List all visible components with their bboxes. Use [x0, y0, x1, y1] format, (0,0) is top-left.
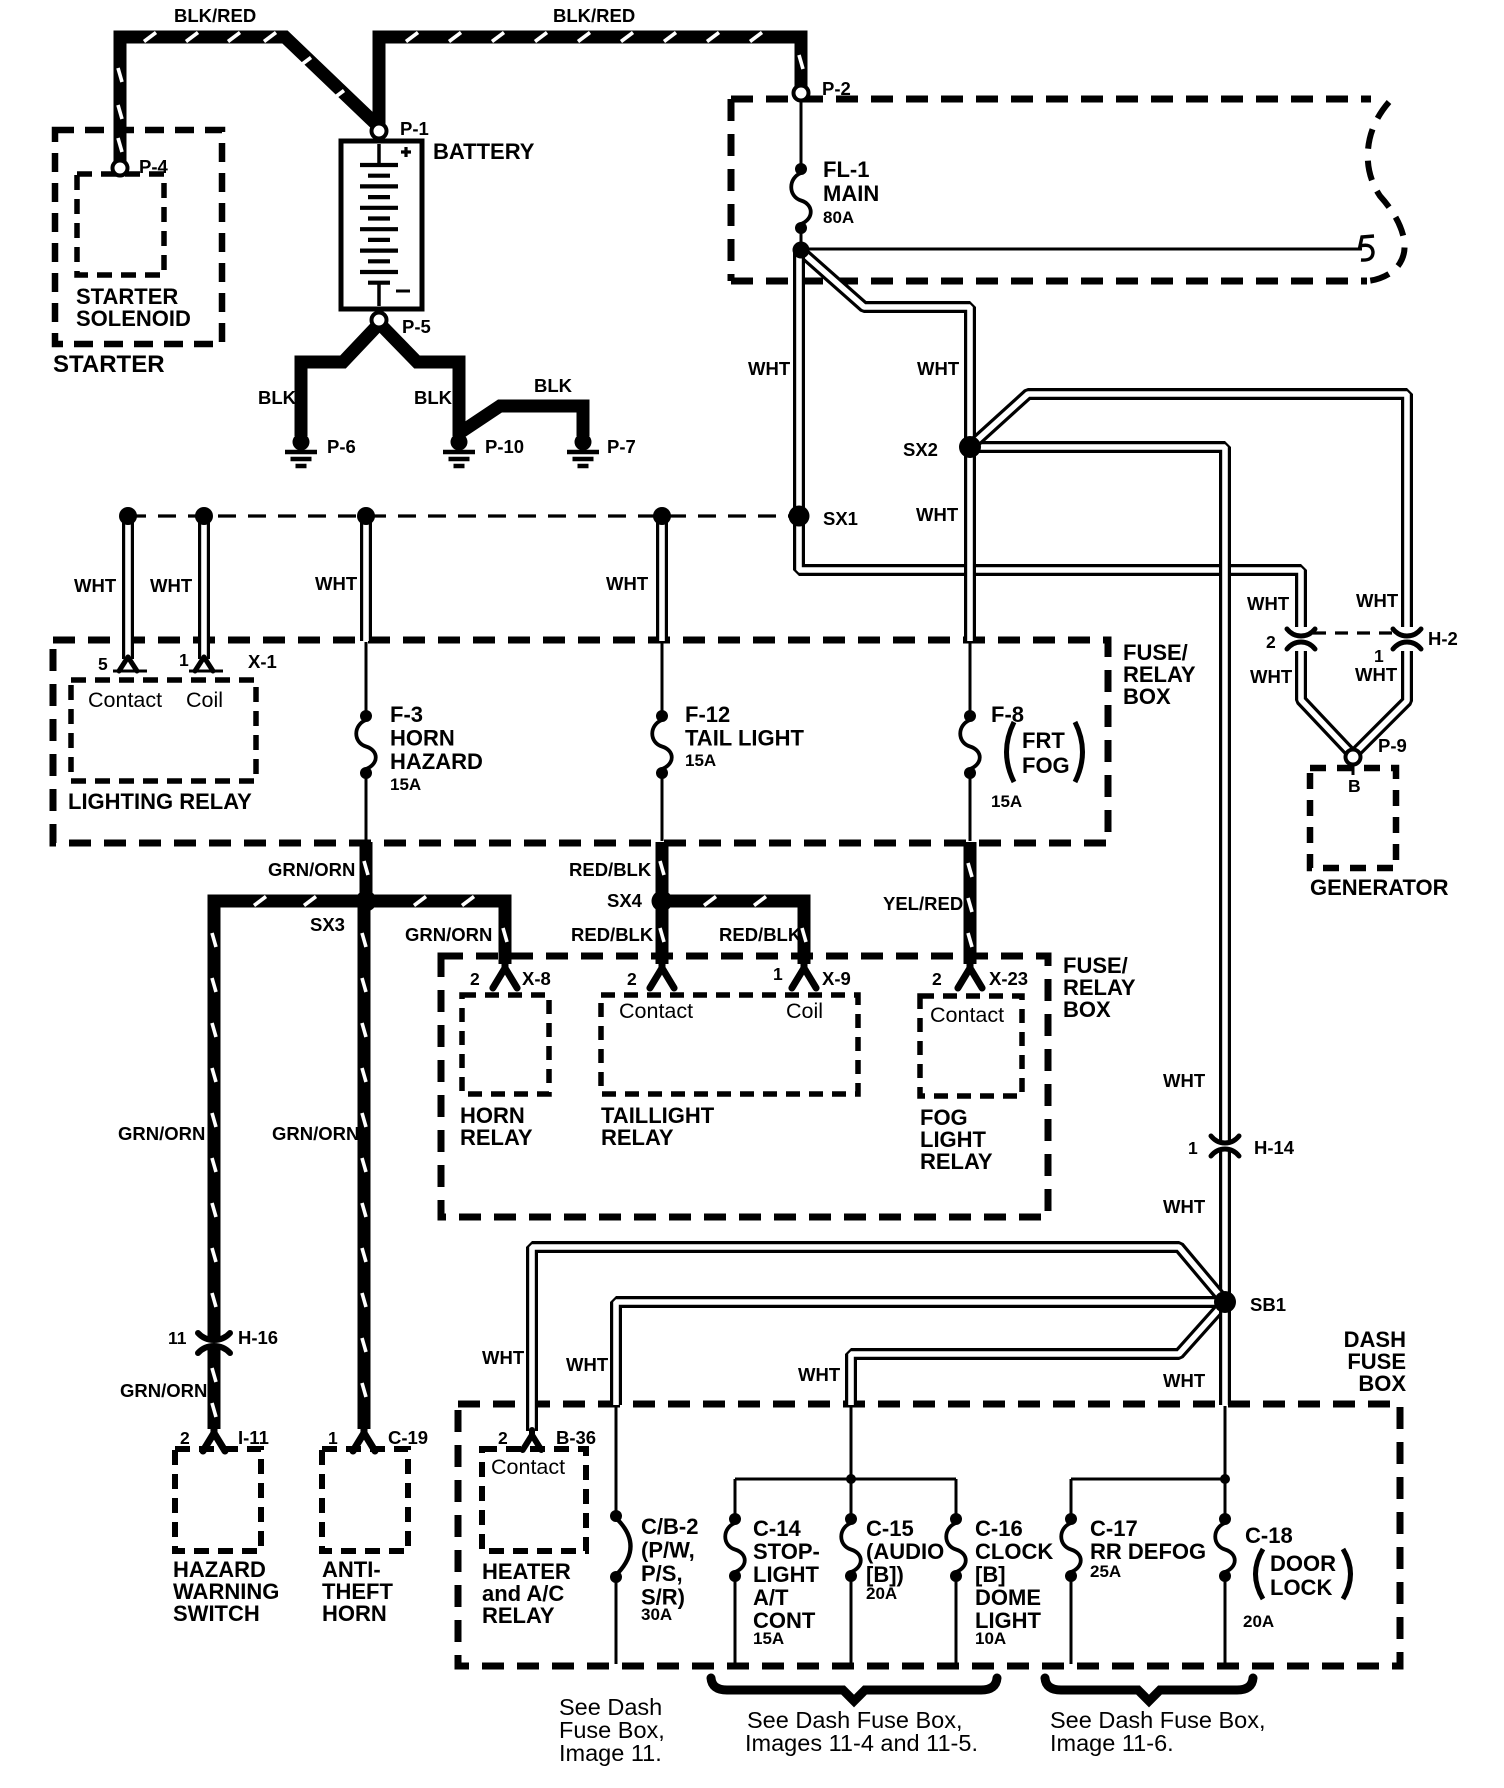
fuse/relay box 1 outline: [53, 640, 1108, 843]
battery BATTERY: [341, 141, 422, 309]
wire GRN/ORN F-3 to SX3: [360, 842, 373, 900]
connector pin X-23: [958, 963, 982, 988]
wire WHT junction diagonal to SX2: [803, 253, 970, 445]
svg-text:P-4: P-4: [139, 156, 169, 177]
svg-text:Contact: Contact: [930, 1003, 1004, 1027]
svg-text:25A: 25A: [1090, 1562, 1121, 1581]
wire YEL/RED F-8 to X-23: [964, 842, 977, 964]
svg-text:Images 11-4 and 11-5.: Images 11-4 and 11-5.: [745, 1730, 978, 1756]
svg-text:11: 11: [168, 1328, 187, 1348]
svg-text:WHT: WHT: [1247, 593, 1290, 614]
svg-text:STARTER: STARTER: [53, 351, 165, 378]
svg-text:1: 1: [179, 650, 189, 670]
node SX2: [959, 436, 981, 458]
svg-text:P/S,: P/S,: [641, 1561, 683, 1586]
svg-text:C/B-2: C/B-2: [641, 1514, 698, 1539]
svg-text:RR DEFOG: RR DEFOG: [1090, 1539, 1206, 1564]
svg-text:15A: 15A: [685, 751, 716, 770]
svg-text:I-11: I-11: [238, 1427, 269, 1448]
svg-text:BOX: BOX: [1358, 1371, 1406, 1396]
svg-text:5: 5: [98, 654, 108, 674]
svg-text:15A: 15A: [753, 1629, 784, 1648]
node SX3: [356, 891, 377, 912]
horn relay inner box: [462, 995, 549, 1094]
svg-text:B: B: [1348, 776, 1361, 796]
node SB1: [1214, 1291, 1236, 1313]
svg-text:BATTERY: BATTERY: [433, 139, 535, 164]
svg-text:X-8: X-8: [522, 968, 551, 989]
svg-text:FRT: FRT: [1022, 728, 1065, 753]
svg-text:WHT: WHT: [482, 1347, 525, 1368]
svg-text:C-14: C-14: [753, 1516, 801, 1541]
svg-text:Coil: Coil: [186, 688, 223, 712]
svg-text:P-10: P-10: [485, 436, 524, 457]
svg-text:1: 1: [773, 964, 783, 984]
wire dashed bus SX1 to lighting relay drops: [128, 514, 795, 517]
fuse/relay box 2 outline: [441, 956, 1048, 1217]
svg-text:GRN/ORN: GRN/ORN: [118, 1123, 205, 1144]
junction node below FL-1: [793, 242, 810, 259]
svg-text:1: 1: [328, 1428, 338, 1448]
svg-text:STOP-: STOP-: [753, 1539, 820, 1564]
wire RED/BLK SX4 right branch to X-9 pin 1: [662, 901, 804, 964]
connector pin B-36: [523, 1430, 542, 1450]
svg-text:WHT: WHT: [1163, 1370, 1206, 1391]
wire BLK battery negative to ground P-6: [301, 325, 378, 436]
svg-text:1: 1: [1188, 1138, 1198, 1158]
svg-text:GRN/ORN: GRN/ORN: [268, 859, 355, 880]
wire WHT drop to F-12: [656, 517, 668, 641]
svg-text:P-9: P-9: [1378, 735, 1407, 756]
wire RED/BLK F-12 to SX4: [656, 842, 669, 900]
svg-text:WHT: WHT: [1163, 1070, 1206, 1091]
svg-text:B-36: B-36: [556, 1427, 596, 1448]
hazard warning switch box: [175, 1449, 261, 1551]
svg-text:BOX: BOX: [1123, 684, 1171, 709]
svg-text:GENERATOR: GENERATOR: [1310, 875, 1449, 900]
wire fuse bottoms C-17 C-18 to box bottom: [1071, 1575, 1225, 1664]
svg-text:BLK: BLK: [258, 387, 297, 408]
svg-text:RELAY: RELAY: [482, 1603, 555, 1628]
starter component box: [55, 130, 222, 344]
svg-text:80A: 80A: [823, 208, 854, 227]
fusible link FL-1 80A: [795, 163, 807, 175]
svg-text:LIGHTING RELAY: LIGHTING RELAY: [68, 789, 252, 814]
wire WHT connector 2 to P-9: [1301, 651, 1350, 752]
svg-text:X-1: X-1: [248, 651, 277, 672]
svg-text:C-19: C-19: [388, 1427, 428, 1448]
svg-text:BLK: BLK: [414, 387, 453, 408]
svg-text:(P/W,: (P/W,: [641, 1538, 695, 1563]
svg-text:WHT: WHT: [150, 575, 193, 596]
connector pin 5 of X-1: [119, 657, 137, 671]
wire BLK/RED battery to P-2: [379, 37, 801, 126]
svg-text:20A: 20A: [1243, 1612, 1274, 1631]
wire GRN/ORN SX3 down to C-19: [358, 901, 371, 1429]
wire WHT SB1 down to C-17 C-18 group: [1219, 1302, 1231, 1405]
svg-text:F-3: F-3: [390, 702, 423, 727]
svg-text:C-15: C-15: [866, 1516, 914, 1541]
connector H-14 inline: [1217, 1141, 1233, 1151]
wire WHT drop to pin 5: [122, 517, 134, 659]
svg-text:LOCK: LOCK: [1270, 1575, 1332, 1600]
svg-text:SOLENOID: SOLENOID: [76, 306, 191, 331]
svg-text:2: 2: [932, 969, 942, 989]
svg-text:Contact: Contact: [619, 999, 693, 1023]
svg-text:P-7: P-7: [607, 436, 636, 457]
svg-text:MAIN: MAIN: [823, 181, 879, 206]
wire WHT SB1 to B-36: [532, 1247, 1221, 1431]
svg-text:SB1: SB1: [1250, 1294, 1286, 1315]
big parentheses for C-18 DOOR LOCK: [1256, 1549, 1264, 1599]
svg-text:WHT: WHT: [74, 575, 117, 596]
wire WHT junction to SX1: [793, 252, 805, 514]
wire SB1 branch to C-17 C-18 bus bar: [1071, 1406, 1225, 1519]
svg-text:HORN: HORN: [390, 726, 455, 751]
svg-text:YEL/RED: YEL/RED: [883, 893, 963, 914]
wire WHT drop to F-3: [360, 517, 372, 641]
svg-text:2: 2: [1266, 632, 1276, 652]
svg-text:Coil: Coil: [786, 999, 823, 1023]
svg-text:10A: 10A: [975, 1629, 1006, 1648]
svg-text:FOG: FOG: [1022, 753, 1070, 778]
bus junction dots on dashed bus: [119, 507, 137, 525]
fuse F-8 15A: [964, 710, 976, 722]
connector pin 1 of X-1: [195, 657, 213, 671]
svg-text:P-2: P-2: [822, 78, 851, 99]
connector pin 1 of X-9: [792, 963, 816, 988]
svg-text:GRN/ORN: GRN/ORN: [272, 1123, 359, 1144]
wire WHT SX2 down to fuse/relay box F-8: [964, 449, 976, 641]
svg-text:WHT: WHT: [917, 358, 960, 379]
wire junction to continuation 5: [805, 248, 1362, 251]
node P-1: [372, 124, 387, 139]
connector pin 2 of X-9: [650, 963, 674, 988]
svg-text:GRN/ORN: GRN/ORN: [405, 924, 492, 945]
svg-text:DOOR: DOOR: [1270, 1551, 1336, 1576]
svg-text:RED/BLK: RED/BLK: [571, 924, 654, 945]
generator pin B stub: [1352, 764, 1355, 775]
big parentheses for F-8 FRT FOG: [1007, 722, 1015, 782]
fuse F-12 15A: [656, 710, 668, 722]
ground P-6: [293, 434, 310, 451]
heater and a/c relay contact box: [482, 1449, 586, 1551]
wire fuse bottoms C-14 C-15 C-16 to box bottom: [735, 1575, 956, 1664]
svg-text:WHT: WHT: [315, 573, 358, 594]
svg-text:H-16: H-16: [238, 1327, 278, 1348]
svg-text:Image 11.: Image 11.: [559, 1740, 662, 1766]
wire SB1 branch to C-14 C-15 C-16 bus bar: [735, 1406, 956, 1519]
node P-4: [113, 161, 128, 176]
continuation mark 5: [1360, 236, 1374, 260]
wire WHT SX2 right then down to SB1: [972, 447, 1225, 1300]
brace under C-17 C-18: [1045, 1678, 1253, 1701]
svg-text:P-1: P-1: [400, 118, 429, 139]
svg-text:BLK: BLK: [534, 375, 573, 396]
lighting relay inner box: [71, 680, 256, 781]
svg-text:FL-1: FL-1: [823, 157, 869, 182]
svg-text:Image 11-6.: Image 11-6.: [1050, 1730, 1174, 1756]
wire F-8 leads inside box: [969, 642, 972, 841]
svg-text:1: 1: [1374, 646, 1384, 666]
svg-text:BOX: BOX: [1063, 997, 1111, 1022]
svg-text:RELAY: RELAY: [920, 1149, 993, 1174]
svg-text:HORN: HORN: [322, 1601, 387, 1626]
connector H-2 inline: [1399, 634, 1415, 644]
brace under C-14 C-15 C-16: [711, 1678, 997, 1701]
wire F-12 leads inside box: [661, 642, 664, 841]
svg-text:WHT: WHT: [1163, 1196, 1206, 1217]
connector pin X-8: [493, 963, 517, 988]
svg-text:WHT: WHT: [1250, 666, 1293, 687]
fuse F-3 15A: [360, 710, 372, 722]
svg-text:WHT: WHT: [1355, 664, 1398, 685]
svg-text:20A: 20A: [866, 1584, 897, 1603]
wire P-2 to FL-1: [800, 100, 803, 168]
svg-text:BLK/RED: BLK/RED: [174, 5, 256, 26]
fuse C-15 20A: [845, 1513, 857, 1525]
connector H-16 inline: [206, 1338, 222, 1348]
svg-text:H-2: H-2: [1428, 628, 1458, 649]
svg-text:CLOCK: CLOCK: [975, 1539, 1053, 1564]
svg-text:2: 2: [470, 969, 480, 989]
svg-text:15A: 15A: [390, 775, 421, 794]
ground P-7: [575, 434, 592, 451]
svg-text:BLK/RED: BLK/RED: [553, 5, 635, 26]
svg-text:SX3: SX3: [310, 914, 345, 935]
circuit breaker C/B-2 30A: [610, 1510, 622, 1522]
connector pin I-11: [203, 1428, 225, 1451]
anti-theft horn box: [322, 1449, 408, 1551]
svg-text:SX2: SX2: [903, 439, 938, 460]
dash fuse box outline: [458, 1404, 1400, 1666]
svg-text:2: 2: [498, 1428, 508, 1448]
fuse C-16 10A: [950, 1513, 962, 1525]
wire GRN/ORN SX3 right branch to X-8: [366, 901, 505, 964]
wire WHT SX2 diagonal up to H-2: [974, 394, 1407, 627]
svg-text:F-8: F-8: [991, 702, 1024, 727]
svg-text:RELAY: RELAY: [601, 1125, 674, 1150]
svg-text:[B]: [B]: [975, 1562, 1006, 1587]
svg-text:DOME: DOME: [975, 1585, 1041, 1610]
wire BLK battery negative to ground P-10: [381, 325, 459, 436]
svg-text:WHT: WHT: [606, 573, 649, 594]
svg-text:WHT: WHT: [798, 1364, 841, 1385]
svg-text:SWITCH: SWITCH: [173, 1601, 260, 1626]
wire WHT H-2 to P-9: [1356, 651, 1407, 752]
taillight relay inner box: [601, 995, 858, 1094]
svg-text:WHT: WHT: [748, 358, 791, 379]
svg-text:X-9: X-9: [822, 968, 851, 989]
svg-text:GRN/ORN: GRN/ORN: [120, 1380, 207, 1401]
svg-text:C-18: C-18: [1245, 1523, 1293, 1548]
svg-text:(AUDIO: (AUDIO: [866, 1539, 944, 1564]
svg-text:RED/BLK: RED/BLK: [569, 859, 652, 880]
node SX4: [652, 891, 673, 912]
svg-text:TAIL LIGHT: TAIL LIGHT: [685, 726, 805, 751]
junction node C-14 bar: [846, 1474, 856, 1484]
svg-text:WHT: WHT: [566, 1354, 609, 1375]
svg-text:C-17: C-17: [1090, 1516, 1138, 1541]
svg-text:P-5: P-5: [402, 316, 431, 337]
wire WHT drop to pin 1: [198, 517, 210, 659]
svg-text:SX1: SX1: [823, 508, 858, 529]
svg-text:F-12: F-12: [685, 702, 730, 727]
connector pin C-19: [353, 1428, 375, 1451]
svg-text:HAZARD: HAZARD: [390, 749, 483, 774]
node P-5: [372, 313, 387, 328]
wire F-3 leads inside box: [365, 642, 368, 841]
fuse C-18 20A: [1219, 1513, 1231, 1525]
svg-text:H-14: H-14: [1254, 1137, 1295, 1158]
svg-text:RED/BLK: RED/BLK: [719, 924, 802, 945]
node SX1: [789, 506, 810, 527]
wire BLK/RED battery to starter: [120, 37, 378, 163]
svg-text:RELAY: RELAY: [460, 1125, 533, 1150]
svg-text:WHT: WHT: [916, 504, 959, 525]
fuse C-14 15A: [729, 1513, 741, 1525]
wire WHT SB1 to C/B-2: [616, 1302, 1222, 1405]
wire WHT SX1 down right to connector 2: [799, 516, 1301, 627]
svg-text:X-23: X-23: [989, 968, 1028, 989]
wire WHT SB1 to C-14 group: [851, 1307, 1221, 1405]
fuse C-17 25A: [1065, 1513, 1077, 1525]
svg-text:Contact: Contact: [491, 1455, 565, 1479]
ground P-10: [451, 434, 468, 451]
svg-text:30A: 30A: [641, 1605, 672, 1624]
dashed link between connector 2 and H-2: [1313, 631, 1395, 634]
svg-text:SX4: SX4: [607, 890, 643, 911]
svg-text:P-6: P-6: [327, 436, 356, 457]
generator component box: [1310, 768, 1396, 868]
fog light relay inner box: [920, 996, 1022, 1096]
node P-9: [1346, 750, 1361, 765]
svg-text:2: 2: [627, 969, 637, 989]
svg-text:2: 2: [180, 1428, 190, 1448]
wire BLK to ground P-7: [461, 406, 583, 436]
svg-text:A/T: A/T: [753, 1585, 789, 1610]
junction node C-17 bar: [1220, 1474, 1230, 1484]
svg-text:LIGHT: LIGHT: [753, 1562, 820, 1587]
wire FL-1 to junction: [800, 225, 803, 252]
wire C/B-2 leads inside dash fuse box: [615, 1406, 618, 1664]
node P-2: [794, 86, 809, 101]
svg-text:WHT: WHT: [1356, 590, 1399, 611]
svg-text:Contact: Contact: [88, 688, 162, 712]
fusible link box (FL-1 box) outline with torn right edge: [731, 96, 1371, 103]
svg-text:C-16: C-16: [975, 1516, 1023, 1541]
wire GRN/ORN SX3 left branch down to I-11: [214, 901, 366, 1429]
wire RED/BLK SX4 down to X-9 pin 2: [656, 901, 669, 964]
connector 2 inline (to generator): [1293, 634, 1309, 644]
svg-text:15A: 15A: [991, 792, 1022, 811]
starter solenoid inner box: [77, 174, 164, 275]
